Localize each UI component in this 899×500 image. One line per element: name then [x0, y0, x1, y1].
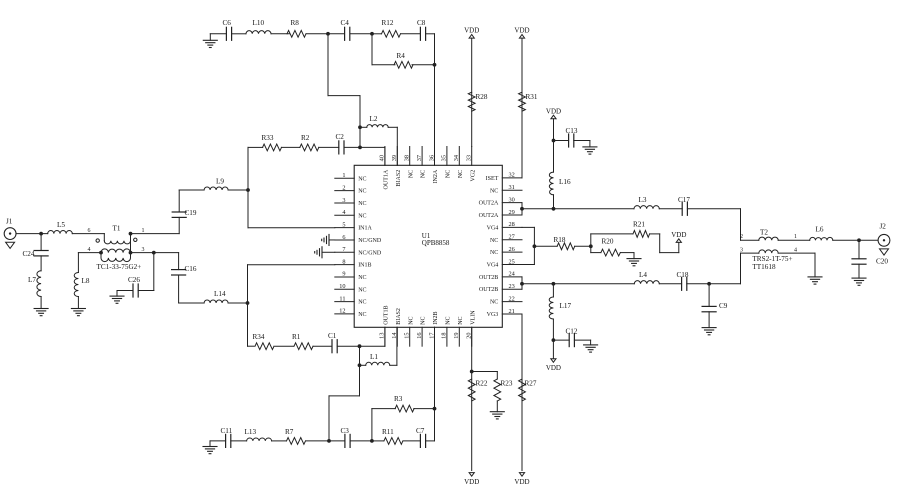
svg-text:BIAS2: BIAS2 [396, 308, 402, 325]
svg-text:VDD: VDD [671, 231, 686, 239]
svg-text:OUT1A: OUT1A [384, 169, 390, 189]
svg-text:C8: C8 [417, 19, 426, 27]
svg-text:R28: R28 [476, 93, 488, 101]
svg-text:NC: NC [358, 176, 366, 182]
svg-text:L7: L7 [28, 276, 36, 284]
svg-text:4: 4 [88, 247, 91, 253]
svg-text:NC: NC [421, 316, 427, 324]
svg-text:NC: NC [446, 316, 452, 324]
svg-text:ISET: ISET [486, 176, 499, 182]
svg-text:L16: L16 [559, 178, 571, 186]
svg-text:R31: R31 [526, 93, 538, 101]
svg-text:VG3: VG3 [487, 312, 499, 318]
svg-text:26: 26 [509, 246, 515, 253]
svg-text:6: 6 [88, 228, 91, 234]
svg-text:NC: NC [358, 201, 366, 207]
svg-text:NC: NC [358, 287, 366, 293]
svg-text:28: 28 [509, 221, 515, 228]
svg-text:22: 22 [509, 295, 515, 302]
svg-text:VDD: VDD [546, 107, 561, 115]
svg-text:9: 9 [342, 271, 345, 278]
svg-text:C24: C24 [23, 250, 35, 258]
svg-text:L17: L17 [560, 302, 572, 310]
svg-text:VDD: VDD [514, 27, 529, 35]
svg-text:C9: C9 [719, 302, 728, 310]
svg-text:34: 34 [453, 154, 460, 161]
svg-text:NC: NC [358, 300, 366, 306]
svg-text:VLIN: VLIN [470, 310, 476, 325]
svg-text:VDD: VDD [464, 478, 479, 486]
svg-text:OUT2B: OUT2B [479, 275, 498, 281]
svg-text:BIAS2: BIAS2 [396, 170, 402, 187]
svg-text:38: 38 [404, 155, 411, 161]
svg-text:5: 5 [342, 221, 345, 228]
svg-text:18: 18 [441, 333, 448, 339]
svg-text:R4: R4 [397, 52, 406, 60]
svg-text:R22: R22 [476, 380, 488, 388]
svg-text:R8: R8 [291, 19, 300, 27]
svg-text:25: 25 [509, 258, 515, 265]
svg-text:C3: C3 [341, 427, 350, 435]
svg-text:C7: C7 [416, 427, 425, 435]
svg-text:L3: L3 [639, 196, 647, 204]
svg-text:QPB8858: QPB8858 [422, 239, 450, 247]
svg-text:IN1A: IN1A [358, 226, 372, 232]
svg-text:R18: R18 [554, 236, 566, 244]
svg-text:NC: NC [408, 170, 414, 178]
svg-text:7: 7 [342, 246, 345, 253]
svg-text:NC: NC [358, 275, 366, 281]
svg-text:21: 21 [509, 308, 515, 315]
svg-text:33: 33 [466, 155, 473, 161]
svg-text:2: 2 [740, 234, 743, 240]
svg-text:R7: R7 [285, 428, 294, 436]
svg-text:C12: C12 [566, 328, 578, 336]
svg-text:R34: R34 [253, 333, 265, 341]
svg-text:NC: NC [458, 316, 464, 324]
svg-text:NC: NC [490, 188, 498, 194]
svg-text:NC: NC [358, 213, 366, 219]
svg-text:NC: NC [358, 312, 366, 318]
svg-text:VDD: VDD [514, 478, 529, 486]
svg-text:C16: C16 [185, 265, 197, 273]
svg-text:NC: NC [490, 238, 498, 244]
svg-text:NC: NC [490, 300, 498, 306]
svg-text:L6: L6 [816, 226, 824, 234]
svg-text:8: 8 [342, 258, 345, 265]
svg-text:1: 1 [342, 172, 345, 179]
svg-text:C11: C11 [221, 427, 233, 435]
svg-text:VG2: VG2 [470, 170, 476, 182]
svg-text:IN1B: IN1B [358, 263, 371, 269]
svg-text:10: 10 [339, 283, 345, 290]
svg-text:VDD: VDD [546, 364, 561, 372]
svg-text:L2: L2 [370, 115, 378, 123]
svg-text:TRS2-1T-75+: TRS2-1T-75+ [752, 255, 792, 263]
svg-text:IN2B: IN2B [433, 311, 439, 324]
svg-text:15: 15 [404, 333, 411, 339]
svg-text:4: 4 [794, 247, 797, 253]
svg-text:35: 35 [441, 155, 448, 161]
svg-text:NC: NC [408, 316, 414, 324]
svg-text:R27: R27 [525, 380, 537, 388]
svg-text:J2: J2 [880, 223, 887, 231]
svg-text:19: 19 [453, 333, 460, 339]
svg-text:VG4: VG4 [487, 262, 499, 268]
svg-text:30: 30 [509, 196, 515, 203]
svg-text:J1: J1 [6, 218, 13, 226]
svg-text:C6: C6 [223, 19, 232, 27]
svg-text:OUT1B: OUT1B [384, 305, 390, 324]
svg-text:IN2A: IN2A [433, 169, 439, 183]
svg-text:NC: NC [358, 189, 366, 195]
svg-text:24: 24 [509, 271, 516, 278]
svg-text:R11: R11 [382, 428, 394, 436]
svg-text:R1: R1 [292, 333, 301, 341]
svg-text:3: 3 [142, 247, 145, 253]
svg-text:L13: L13 [245, 428, 257, 436]
svg-text:NC: NC [458, 170, 464, 178]
svg-text:32: 32 [509, 172, 515, 179]
svg-text:OUT2A: OUT2A [479, 213, 499, 219]
svg-text:TT1618: TT1618 [752, 263, 776, 271]
svg-text:37: 37 [416, 155, 423, 161]
svg-text:R3: R3 [394, 395, 403, 403]
svg-text:VG4: VG4 [487, 225, 499, 231]
svg-text:C17: C17 [678, 196, 690, 204]
svg-text:27: 27 [509, 234, 515, 241]
svg-text:VDD: VDD [464, 27, 479, 35]
svg-text:R21: R21 [633, 220, 645, 228]
svg-text:6: 6 [342, 234, 345, 241]
svg-text:L5: L5 [57, 221, 65, 229]
svg-text:R2: R2 [301, 134, 310, 142]
svg-text:NC/GND: NC/GND [358, 238, 382, 244]
svg-text:NC/GND: NC/GND [358, 250, 382, 256]
svg-text:NC: NC [421, 170, 427, 178]
svg-text:2: 2 [342, 184, 345, 191]
svg-text:L9: L9 [216, 178, 224, 186]
svg-text:3: 3 [342, 197, 345, 204]
svg-text:T2: T2 [760, 229, 768, 237]
svg-text:31: 31 [509, 184, 515, 191]
svg-text:C20: C20 [876, 258, 888, 266]
svg-text:NC: NC [446, 170, 452, 178]
svg-text:OUT2B: OUT2B [479, 287, 498, 293]
svg-text:L14: L14 [214, 290, 226, 298]
svg-text:L1: L1 [370, 353, 378, 361]
svg-text:1: 1 [794, 234, 797, 240]
svg-text:23: 23 [509, 283, 515, 290]
svg-text:C19: C19 [185, 209, 197, 217]
svg-text:R20: R20 [602, 238, 614, 246]
svg-text:C2: C2 [336, 133, 345, 141]
svg-text:R23: R23 [501, 380, 513, 388]
svg-text:16: 16 [416, 333, 423, 339]
svg-text:1: 1 [142, 228, 145, 234]
svg-text:C13: C13 [566, 127, 578, 135]
svg-text:R33: R33 [262, 134, 274, 142]
svg-text:L4: L4 [639, 271, 647, 279]
svg-text:R12: R12 [382, 19, 394, 27]
svg-text:L10: L10 [253, 19, 265, 27]
svg-text:3: 3 [740, 247, 743, 253]
svg-text:C4: C4 [341, 19, 350, 27]
svg-text:C1: C1 [328, 332, 337, 340]
svg-text:C18: C18 [677, 271, 689, 279]
svg-text:11: 11 [339, 295, 345, 302]
svg-text:L8: L8 [82, 277, 90, 285]
svg-text:C26: C26 [128, 276, 140, 284]
svg-text:T1: T1 [113, 224, 121, 232]
svg-text:TC1-33-75G2+: TC1-33-75G2+ [97, 263, 142, 271]
svg-text:12: 12 [339, 308, 345, 315]
svg-text:NC: NC [490, 250, 498, 256]
svg-text:OUT2A: OUT2A [479, 201, 499, 207]
svg-text:29: 29 [509, 209, 515, 216]
